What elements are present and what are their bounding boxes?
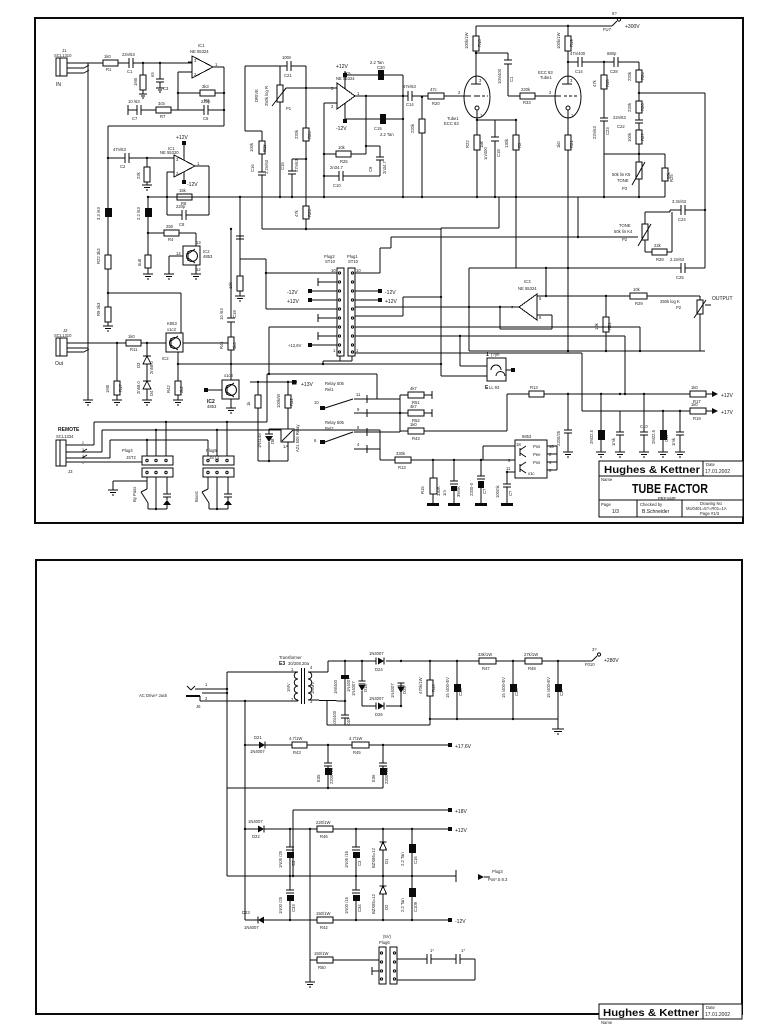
svg-text:C37: C37 bbox=[559, 688, 564, 696]
resistor R43c 4.7/1W bbox=[289, 736, 352, 755]
bottom rail output stage bbox=[469, 350, 705, 352]
resistor R42 2k2 bbox=[166, 381, 184, 400]
coupling cap C14b 47n/400 bbox=[568, 51, 614, 74]
svg-text:R22: R22 bbox=[465, 140, 470, 148]
svg-text:NE 55324: NE 55324 bbox=[190, 49, 209, 54]
ground bbox=[164, 274, 174, 279]
svg-text:3.3 /63: 3.3 /63 bbox=[96, 207, 101, 220]
wire to op-amp bbox=[133, 62, 192, 64]
plug6 right caps loop bbox=[397, 948, 475, 980]
capacitor C20b 680p bbox=[603, 51, 639, 74]
svg-text:Name: Name bbox=[601, 1020, 613, 1024]
capacitor C8 220p bbox=[167, 204, 209, 227]
wire jack to transformer bbox=[227, 671, 296, 673]
pot P2b OUTPUT 250k log bbox=[660, 296, 733, 351]
wire to second transistor bbox=[178, 364, 231, 380]
HT filter rail top bbox=[429, 660, 479, 662]
svg-text:NE 55324: NE 55324 bbox=[518, 286, 537, 291]
svg-text:R1: R1 bbox=[106, 67, 112, 72]
cap C39 15/400 bbox=[501, 661, 519, 719]
pin stub +12V left bbox=[287, 298, 337, 305]
svg-text:15 /400-EV: 15 /400-EV bbox=[445, 677, 450, 698]
resistor 10k fb bbox=[324, 96, 367, 164]
svg-text:2n58.0: 2n58.0 bbox=[136, 381, 141, 394]
svg-text:-12V: -12V bbox=[385, 290, 396, 296]
svg-text:R4: R4 bbox=[168, 237, 174, 242]
wire from lower rail to connector bbox=[240, 236, 337, 309]
svg-text:C14: C14 bbox=[575, 69, 583, 74]
resistor R20 47c bbox=[428, 87, 444, 106]
svg-text:Boost: Boost bbox=[194, 490, 199, 502]
bypass switch bbox=[132, 477, 167, 510]
svg-text:C24: C24 bbox=[678, 217, 686, 222]
resistor R41 3k3 bbox=[219, 337, 237, 365]
capacitor C7 10/63 bbox=[128, 99, 141, 121]
svg-text:-12V: -12V bbox=[187, 182, 198, 188]
svg-text:C10: C10 bbox=[640, 424, 648, 429]
diode D21 1N4007 bbox=[245, 735, 292, 754]
svg-text:D26: D26 bbox=[375, 712, 383, 717]
capacitor C24 3.3n/63 bbox=[670, 199, 706, 222]
cap C40 10n/400 bbox=[332, 710, 351, 726]
pin wire right 10 bbox=[355, 237, 391, 273]
svg-text:D1: D1 bbox=[384, 858, 389, 864]
svg-text:D25: D25 bbox=[402, 686, 407, 694]
svg-text:220/1W: 220/1W bbox=[316, 820, 330, 825]
capacitor C16 2.2n/63 bbox=[250, 154, 269, 229]
resistor R9 3k3 bbox=[96, 302, 111, 326]
svg-text:IN: IN bbox=[56, 82, 61, 88]
tone rail mid bbox=[604, 153, 665, 155]
capacitor C14 47n/63 bbox=[403, 84, 465, 107]
jack J1 IN bbox=[54, 48, 90, 88]
svg-text:11: 11 bbox=[356, 392, 361, 397]
svg-text:C21: C21 bbox=[284, 73, 292, 78]
svg-text:47c: 47c bbox=[430, 87, 437, 92]
resistor 220k pulldown bbox=[136, 158, 150, 182]
resistor R26 100k bbox=[249, 131, 267, 154]
HT bottom rail bbox=[429, 718, 558, 720]
svg-text:4.7/1W: 4.7/1W bbox=[289, 736, 302, 741]
svg-text:R19: R19 bbox=[693, 416, 701, 421]
svg-text:Hughes & Kettner: Hughes & Kettner bbox=[604, 464, 700, 476]
filter cap C10 bbox=[640, 394, 648, 452]
svg-text:100k/W: 100k/W bbox=[276, 394, 281, 408]
polarized cap 3.3/63 on x108 bbox=[96, 158, 112, 294]
svg-text:D24: D24 bbox=[375, 667, 383, 672]
connector Plug2/Plug1 ST10 bbox=[324, 254, 361, 356]
svg-text:Date: Date bbox=[706, 1005, 716, 1010]
transformer TR1 bbox=[279, 655, 328, 704]
svg-text:R45: R45 bbox=[353, 750, 361, 755]
+13V terminal bbox=[292, 380, 313, 388]
svg-text:4k7: 4k7 bbox=[410, 386, 417, 391]
svg-text:R18: R18 bbox=[477, 39, 482, 47]
diode D24 top bbox=[369, 651, 384, 672]
svg-text:3: 3 bbox=[82, 448, 84, 452]
pin wire right to IC3 bbox=[354, 306, 356, 308]
svg-text:15 /400-EV: 15 /400-EV bbox=[546, 677, 551, 698]
svg-text:22n/63: 22n/63 bbox=[592, 126, 597, 139]
svg-text:4.7/1W: 4.7/1W bbox=[349, 736, 362, 741]
svg-text:C9: C9 bbox=[368, 166, 373, 172]
svg-text:10k: 10k bbox=[633, 287, 641, 292]
svg-text:4k7: 4k7 bbox=[410, 404, 417, 409]
svg-text:C1: C1 bbox=[127, 69, 133, 74]
svg-text:14: 14 bbox=[176, 251, 181, 256]
svg-text:+12V: +12V bbox=[721, 393, 733, 399]
svg-text:A21 505 Relay: A21 505 Relay bbox=[295, 424, 300, 452]
svg-text:10 /63: 10 /63 bbox=[128, 99, 140, 104]
jack J6 AC Drive bbox=[139, 682, 227, 709]
diode D3 zener bbox=[136, 343, 154, 381]
diode D8 1N4148 bbox=[257, 429, 283, 461]
cap C36 2200/25 bbox=[371, 745, 389, 788]
svg-text:11: 11 bbox=[506, 466, 511, 471]
svg-text:C34: C34 bbox=[357, 904, 362, 912]
svg-text:1N4007: 1N4007 bbox=[369, 651, 384, 656]
capacitor C19 10/63 bbox=[219, 308, 237, 337]
capacitor C1 22n/63 bbox=[122, 52, 135, 74]
ground bbox=[142, 400, 152, 405]
mid rail bbox=[227, 870, 456, 882]
capacitor 22n/63 tone A bbox=[592, 118, 610, 197]
svg-text:JST2: JST2 bbox=[126, 455, 136, 460]
pin wire left 4 to relay rail bbox=[269, 327, 337, 374]
svg-text:FU7: FU7 bbox=[603, 27, 612, 32]
svg-text:R46: R46 bbox=[320, 834, 328, 839]
svg-text:47n/400: 47n/400 bbox=[570, 51, 586, 56]
wire IC3 input bbox=[355, 306, 519, 308]
svg-text:220k: 220k bbox=[627, 71, 632, 81]
svg-text:2n34.7: 2n34.7 bbox=[330, 165, 343, 170]
capacitor C3 bbox=[150, 63, 169, 91]
resistor 130k bbox=[495, 119, 522, 197]
svg-text:C1: C1 bbox=[509, 76, 514, 82]
svg-text:Plug5: Plug5 bbox=[206, 448, 217, 453]
svg-text:R26: R26 bbox=[640, 103, 645, 111]
svg-text:Page: Page bbox=[601, 502, 611, 507]
svg-text:+12V: +12V bbox=[287, 299, 299, 305]
svg-text:+12V: +12V bbox=[176, 135, 188, 141]
svg-text:R26: R26 bbox=[262, 144, 267, 152]
svg-text:220p: 220p bbox=[176, 204, 186, 209]
svg-text:TONE: TONE bbox=[619, 223, 631, 228]
svg-text:C38: C38 bbox=[458, 688, 463, 696]
svg-text:2: 2 bbox=[82, 441, 84, 445]
HT rail +300V bbox=[476, 11, 640, 32]
svg-text:+300V: +300V bbox=[625, 24, 640, 30]
polarized cap 2200.0 bbox=[469, 460, 487, 503]
resistor R50 150/1W heater bbox=[310, 951, 379, 970]
svg-text:R31: R31 bbox=[607, 322, 612, 330]
ground under plug6 bbox=[305, 960, 315, 987]
svg-text:J6: J6 bbox=[196, 704, 201, 709]
svg-text:C7: C7 bbox=[132, 116, 138, 121]
svg-text:10 /63: 10 /63 bbox=[219, 308, 224, 320]
svg-text:100k: 100k bbox=[249, 142, 254, 152]
svg-text:10: 10 bbox=[314, 400, 319, 405]
svg-text:C?: C? bbox=[508, 490, 513, 496]
svg-text:C?: C? bbox=[482, 488, 487, 494]
svg-text:Transformer: Transformer bbox=[279, 655, 302, 660]
relay contact Rel2 bbox=[314, 420, 400, 453]
svg-text:R47: R47 bbox=[482, 666, 490, 671]
wire drive column left bbox=[245, 66, 262, 131]
svg-text:+12V: +12V bbox=[455, 828, 467, 834]
svg-text:-12V: -12V bbox=[336, 126, 347, 132]
pin stub -12V right bbox=[355, 289, 396, 296]
svg-text:Name: Name bbox=[601, 477, 613, 482]
svg-text:P2: P2 bbox=[622, 237, 628, 242]
svg-text:OUTPUT: OUTPUT bbox=[712, 296, 733, 302]
HT ground bbox=[552, 719, 564, 734]
svg-text:1MMV: 1MMV bbox=[310, 682, 315, 694]
resistor timer B 100k/W bbox=[276, 382, 294, 429]
capacitor C8b 2n34.7 bbox=[324, 165, 380, 188]
resistor R42b 150/1W bbox=[289, 911, 466, 930]
op-amp IC2 55320 bbox=[160, 146, 200, 177]
svg-text:22n/63: 22n/63 bbox=[613, 115, 626, 120]
svg-text:2n34.7: 2n34.7 bbox=[382, 161, 387, 174]
wire to right column bbox=[639, 93, 705, 210]
svg-text:C10: C10 bbox=[333, 183, 341, 188]
long vertical feed B bbox=[244, 701, 246, 920]
svg-text:D2: D2 bbox=[384, 904, 389, 910]
wire jack lower bbox=[200, 696, 296, 702]
svg-text:3c5: 3c5 bbox=[158, 101, 165, 106]
capacitor C25 2.2n/63 bbox=[639, 257, 705, 280]
cap 2.2 Tan C109 bbox=[400, 876, 418, 920]
connector Plug4 JST2 bbox=[122, 448, 173, 477]
svg-text:SCL1310: SCL1310 bbox=[54, 333, 72, 338]
capacitor C2 47n/63 bbox=[107, 147, 174, 169]
wire out line bbox=[97, 342, 126, 344]
resistor 47k tone bbox=[592, 62, 610, 118]
svg-text:150/1W: 150/1W bbox=[314, 951, 328, 956]
svg-text:50k lin K5: 50k lin K5 bbox=[612, 172, 631, 177]
svg-text:D3: D3 bbox=[136, 362, 141, 368]
svg-text:4853: 4853 bbox=[207, 404, 217, 409]
wire branch to transistor stage bbox=[108, 293, 181, 333]
svg-text:C3: C3 bbox=[357, 860, 362, 866]
grounds filter caps bbox=[596, 452, 685, 457]
filter cap 2M22.5 bbox=[589, 394, 605, 452]
wire output loop down-left bbox=[108, 126, 224, 158]
svg-text:R13: R13 bbox=[398, 465, 406, 470]
wire IC5 output bbox=[355, 95, 408, 97]
svg-text:x1c3: x1c3 bbox=[167, 327, 177, 332]
feedback loop IC5 bbox=[323, 103, 337, 197]
svg-text:F010: F010 bbox=[585, 662, 595, 667]
pot P2 TONE 50k second bbox=[614, 210, 670, 252]
svg-text:C23: C23 bbox=[605, 127, 610, 135]
svg-text:R15: R15 bbox=[420, 486, 425, 494]
tube V1 ECC83 bbox=[444, 76, 490, 135]
svg-text:1k0: 1k0 bbox=[691, 402, 698, 407]
svg-text:+12,6V: +12,6V bbox=[288, 343, 302, 348]
svg-text:1MV: 1MV bbox=[286, 683, 291, 692]
cap C32 1N05/16 bbox=[344, 829, 362, 876]
svg-text:Tube1: Tube1 bbox=[540, 75, 552, 80]
op-amp IC3 NE5532 bbox=[511, 279, 542, 320]
svg-text:BZX85=12: BZX85=12 bbox=[371, 847, 376, 868]
svg-text:Rel2: Rel2 bbox=[325, 426, 334, 431]
cap C33 1N00/25 bbox=[278, 876, 296, 920]
svg-text:10n/400: 10n/400 bbox=[332, 710, 337, 726]
svg-text:R7: R7 bbox=[160, 114, 166, 119]
svg-text:5?: 5? bbox=[612, 11, 617, 16]
svg-text:P3: P3 bbox=[622, 186, 628, 191]
svg-text:100k: 100k bbox=[627, 132, 632, 142]
svg-text:C8: C8 bbox=[179, 222, 185, 227]
capacitor C22 22n/63 bbox=[613, 115, 643, 130]
svg-text:B.Schneider: B.Schneider bbox=[642, 509, 670, 515]
connector pin4 loop feed bbox=[267, 373, 377, 399]
zero rail bbox=[227, 787, 383, 789]
svg-text:C40: C40 bbox=[346, 718, 351, 726]
svg-text:100mk: 100mk bbox=[495, 485, 500, 498]
svg-text:10n/400: 10n/400 bbox=[497, 68, 502, 84]
svg-text:33k/1W: 33k/1W bbox=[478, 652, 492, 657]
svg-text:R24: R24 bbox=[307, 131, 312, 139]
svg-text:P2: P2 bbox=[676, 305, 682, 310]
svg-text:13: 13 bbox=[196, 240, 201, 245]
svg-text:10: 10 bbox=[331, 268, 336, 273]
svg-text:250k log K: 250k log K bbox=[660, 299, 680, 304]
svg-text:R24: R24 bbox=[640, 72, 645, 80]
svg-text:NE 55320: NE 55320 bbox=[160, 150, 179, 155]
diode D22 bbox=[245, 819, 317, 839]
svg-text:2k2: 2k2 bbox=[179, 386, 184, 393]
svg-text:1k0: 1k0 bbox=[410, 422, 417, 427]
svg-text:C109: C109 bbox=[413, 901, 418, 912]
cap C37 15/400 bbox=[546, 661, 564, 719]
svg-text:220k: 220k bbox=[410, 123, 415, 133]
svg-text:4853: 4853 bbox=[203, 254, 213, 259]
svg-text:2M22.5: 2M22.5 bbox=[589, 429, 594, 444]
svg-text:K853: K853 bbox=[167, 321, 177, 326]
svg-text:R11: R11 bbox=[130, 347, 138, 352]
svg-text:R27: R27 bbox=[640, 133, 645, 141]
filter cap 1mk bbox=[611, 411, 624, 452]
svg-text:470k/1W: 470k/1W bbox=[418, 677, 423, 694]
svg-text:R20: R20 bbox=[432, 101, 440, 106]
wire into LED top bbox=[459, 335, 487, 366]
resistor R7 3k3 bbox=[141, 101, 178, 119]
svg-text:6u8: 6u8 bbox=[137, 258, 142, 266]
svg-text:P1: P1 bbox=[286, 106, 292, 111]
capacitor C15 47n/63 bbox=[280, 159, 306, 197]
svg-text:1N4007: 1N4007 bbox=[369, 696, 384, 701]
svg-text:ST10: ST10 bbox=[348, 259, 359, 264]
resistor timer A bbox=[246, 382, 261, 461]
resistor R3 3k3 feedback bbox=[178, 84, 224, 103]
wire 1k0 row up to supply rail bbox=[506, 394, 508, 431]
svg-text:22k: 22k bbox=[136, 171, 141, 179]
long ground wire from jack bbox=[87, 63, 89, 400]
plate resistor R18 100k/1W bbox=[464, 26, 482, 84]
svg-text:R46: R46 bbox=[431, 684, 436, 692]
cap C41 1M/400 bbox=[333, 675, 351, 694]
wire to transistor bbox=[147, 232, 164, 234]
long vertical feed A bbox=[226, 672, 228, 876]
IC4 GAL 6853 bbox=[506, 434, 554, 478]
svg-text:+17.6V: +17.6V bbox=[455, 744, 472, 750]
cap C38 15/400 bbox=[445, 661, 463, 719]
resistor R4 250 bbox=[164, 224, 179, 242]
relay coil Timer 505 bbox=[281, 424, 300, 461]
bypass cap bbox=[163, 477, 171, 509]
+12V pin IC5 bbox=[336, 64, 348, 89]
wire emitter bbox=[169, 256, 183, 274]
capacitor C9 2n34.7 bbox=[366, 146, 387, 176]
svg-text:R30: R30 bbox=[605, 79, 610, 87]
svg-text:30/208.20a: 30/208.20a bbox=[288, 661, 310, 666]
wire from rail y229 down at 231 bbox=[230, 228, 232, 310]
svg-text:R48: R48 bbox=[528, 666, 536, 671]
resistor R19b 1k0 bbox=[690, 402, 733, 421]
pin stub left 6 wire bbox=[266, 308, 337, 310]
resistor R23 47k bbox=[294, 206, 312, 230]
resistor R52 4k7 bbox=[400, 404, 432, 423]
polarized cap 2.2/63 bbox=[136, 197, 152, 233]
svg-text:R32: R32 bbox=[289, 398, 294, 406]
svg-text:2.2 Tan: 2.2 Tan bbox=[400, 898, 405, 912]
resistor R31 10k to gnd bbox=[594, 296, 612, 351]
resistor 10k on 240 column bbox=[228, 239, 243, 296]
base stub with terminal bbox=[204, 388, 222, 392]
pin stub T-bar left 5 bbox=[318, 314, 337, 322]
svg-text:150/1W: 150/1W bbox=[316, 911, 330, 916]
diode D25 vertical bbox=[390, 683, 407, 698]
svg-text:35mK: 35mK bbox=[456, 486, 461, 497]
svg-text:1k0: 1k0 bbox=[128, 334, 135, 339]
cap 2.2 Tan bbox=[400, 829, 418, 876]
wire long from mute to LED area bbox=[231, 363, 441, 365]
resistor R48 27k/1W bbox=[524, 652, 592, 671]
svg-text:+12V: +12V bbox=[336, 64, 348, 70]
svg-text:18: 18 bbox=[516, 442, 521, 447]
svg-text:220p: 220p bbox=[201, 99, 211, 104]
transistor K853 second bbox=[207, 373, 239, 409]
svg-text:1k0: 1k0 bbox=[104, 54, 111, 59]
svg-text:2.2 Tan: 2.2 Tan bbox=[380, 132, 394, 137]
svg-text:1k0: 1k0 bbox=[556, 141, 561, 148]
svg-text:27k/1W: 27k/1W bbox=[524, 652, 538, 657]
connector Plug6 5V bbox=[372, 934, 397, 984]
resistor R17b 1k0 bbox=[690, 385, 733, 404]
op-amp IC1 NE5532 bbox=[188, 43, 218, 78]
svg-text:C15: C15 bbox=[280, 162, 285, 170]
svg-text:E36: E36 bbox=[371, 774, 376, 782]
svg-text:C25: C25 bbox=[676, 275, 684, 280]
svg-text:TONE: TONE bbox=[617, 178, 629, 183]
svg-text:Pos: Pos bbox=[533, 460, 540, 465]
wire wiper to IC5 bbox=[286, 87, 337, 89]
pin wire right 1 long bbox=[355, 353, 582, 411]
svg-text:1N00 /16: 1N00 /16 bbox=[344, 896, 349, 914]
page field bbox=[601, 502, 619, 515]
diode D4 zener bbox=[136, 381, 154, 400]
svg-text:47k: 47k bbox=[294, 209, 299, 217]
ground bbox=[83, 400, 93, 405]
pot P1 DRIVE 250k log bbox=[254, 66, 292, 197]
timer bottom wire bbox=[258, 460, 288, 462]
coupling cap C18 1n/400 bbox=[477, 120, 501, 197]
svg-text:Plug3: Plug3 bbox=[492, 869, 503, 874]
svg-text:1m: 1m bbox=[442, 490, 447, 496]
